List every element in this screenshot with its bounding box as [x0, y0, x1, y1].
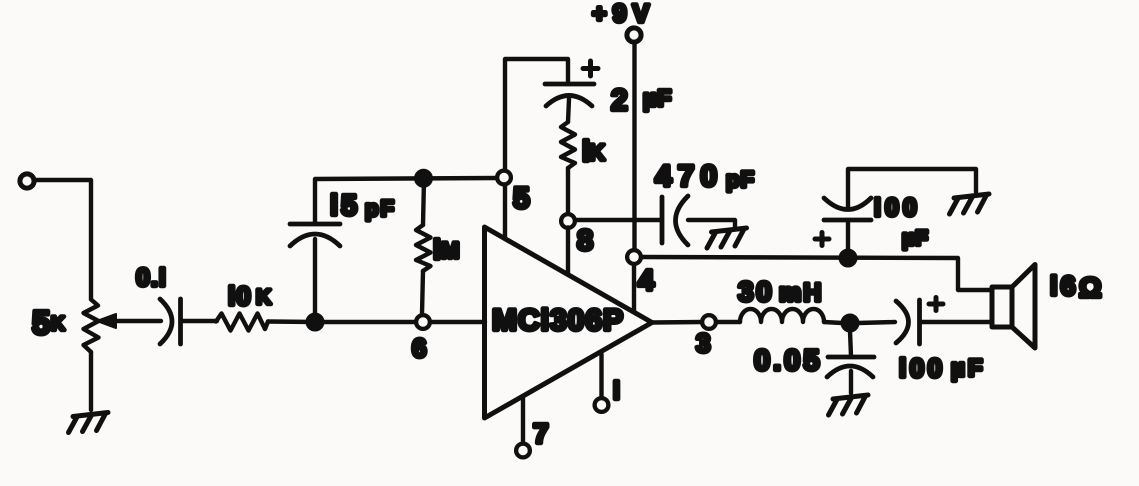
capacitor 0.05 stub [850, 331, 851, 356]
ground (0.05) [829, 395, 869, 415]
pin 4 circle [627, 250, 641, 264]
svg-text:µF: µF [951, 355, 986, 382]
pin 7 stub [521, 398, 525, 444]
wire node D to C out [858, 322, 895, 323]
svg-text:8: 8 [577, 225, 593, 257]
svg-text:µF: µF [643, 85, 672, 111]
node C junction [839, 249, 857, 267]
resistor 1K [561, 122, 575, 168]
resistor 1M stub bottom [422, 271, 423, 314]
wire pin4 row [642, 257, 993, 290]
wire 0.05 to ground [849, 371, 853, 393]
svg-text:pF: pF [365, 196, 396, 221]
pin 1 circle [595, 398, 609, 412]
wire L1 to node D [824, 322, 842, 323]
svg-text:6: 6 [412, 333, 426, 363]
svg-text:K: K [589, 140, 605, 165]
wire wiper to C1 [112, 319, 161, 323]
pin 7 circle [516, 444, 530, 458]
capacitor 100uF top [824, 198, 871, 220]
op-amp U1 MC1306P [485, 227, 653, 418]
wire 100uF to top ground [848, 169, 976, 208]
svg-text:l0: l0 [228, 281, 252, 311]
capacitor 0.05 [827, 357, 874, 377]
svg-text:l00: l00 [874, 194, 921, 222]
svg-text:3: 3 [696, 328, 710, 358]
svg-text:2: 2 [611, 84, 628, 117]
svg-text:l: l [613, 377, 620, 405]
resistor 1M [416, 225, 431, 271]
15pF branch stub [313, 239, 317, 322]
svg-text:l00: l00 [899, 353, 946, 383]
plus sign 100uF top [815, 233, 829, 246]
wire amp tip to pin 3 [652, 320, 701, 325]
wire pin8 to 470pF [576, 218, 662, 222]
svg-text:K: K [256, 286, 271, 309]
resistor 1M stub top [423, 179, 424, 225]
capacitor 0.1 [160, 299, 181, 344]
node B junction [415, 169, 433, 187]
svg-text:0.05: 0.05 [754, 345, 822, 377]
wire C1 to R 10K [181, 319, 217, 323]
input terminal [20, 174, 34, 188]
pin 5 circle [497, 171, 511, 185]
wire pin6 to amp [431, 320, 486, 324]
svg-text:7: 7 [533, 418, 549, 449]
ground (top right) [950, 194, 990, 214]
pin 6 circle [416, 315, 430, 329]
speaker LS1 [992, 265, 1035, 349]
svg-text:4: 4 [638, 265, 654, 297]
wire 470pF to ground [688, 220, 735, 228]
svg-text:5: 5 [32, 304, 50, 341]
capacitor 100uF output [896, 300, 920, 344]
svg-text:mH: mH [779, 279, 823, 307]
capacitor 100uF stub [846, 221, 850, 250]
svg-text:470: 470 [655, 160, 723, 193]
pin 3 circle [702, 315, 716, 329]
wiper arrow [97, 314, 116, 328]
pin 8 circle [561, 214, 575, 228]
wire pot to ground [89, 352, 93, 410]
wire +9V to pin 4 [632, 44, 636, 250]
svg-text:l: l [433, 234, 441, 265]
svg-text:K: K [51, 314, 65, 335]
plus sign 2uF [583, 61, 598, 76]
pin 1 stub [599, 354, 603, 398]
capacitor 470pF [662, 196, 688, 245]
wire pin5 up to 2uF loop [505, 59, 568, 171]
wire 10K to node A [268, 319, 315, 324]
svg-text:l5: l5 [330, 190, 360, 222]
wire C out to speaker [921, 320, 992, 324]
pin 4 stub to amp [632, 265, 636, 312]
svg-text:Ω: Ω [1079, 272, 1101, 303]
capacitor 2uF plate [545, 84, 594, 106]
wire node A to pin 6 [315, 320, 414, 324]
svg-text:5: 5 [513, 182, 530, 215]
plus sign output cap [929, 298, 943, 311]
svg-text:µF: µF [902, 227, 929, 250]
inductor 30mH [740, 309, 824, 322]
ground (470pF) [707, 228, 747, 248]
pin 5 stub to amp [503, 186, 507, 239]
svg-text:pF: pF [726, 167, 755, 192]
+9V terminal [627, 28, 641, 42]
svg-text:M: M [441, 238, 459, 263]
svg-text:0.l: 0.l [136, 264, 167, 292]
svg-text:l6: l6 [1050, 271, 1079, 301]
node D junction [841, 314, 859, 332]
wire pin3 to L1 [717, 320, 741, 324]
node A junction [306, 313, 324, 331]
wire 1K to pin 8 [566, 168, 570, 213]
wire 2uF to 1K [568, 99, 569, 122]
svg-text:MCl306P: MCl306P [492, 304, 624, 337]
svg-text:+9V: +9V [592, 0, 655, 28]
wire input top [35, 180, 92, 299]
pin 8 stub to amp [566, 228, 570, 275]
ground (below 5K pot) [69, 413, 109, 433]
svg-text:30: 30 [738, 276, 774, 307]
potentiometer 5K [84, 300, 99, 353]
wire 15pF to top wire [315, 178, 497, 223]
resistor 10K [216, 314, 268, 331]
capacitor 15pF [290, 224, 340, 246]
